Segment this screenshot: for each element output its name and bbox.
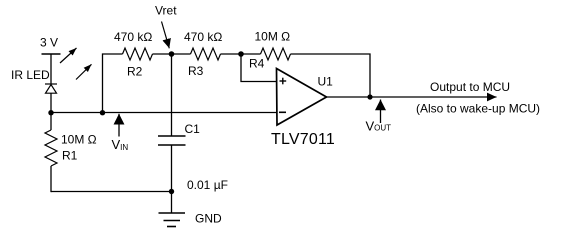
ground symbol xyxy=(159,213,186,227)
wire bottom rail xyxy=(51,191,172,193)
minus input sign xyxy=(279,111,286,113)
wire GND stem xyxy=(171,192,173,214)
wire R1 top lead xyxy=(50,113,52,130)
IR LED D1 xyxy=(45,84,57,93)
svg-text:R2: R2 xyxy=(127,65,143,79)
wire R4 right to output xyxy=(291,54,371,97)
svg-text:VOUT: VOUT xyxy=(366,119,392,134)
svg-text:R3: R3 xyxy=(188,64,204,78)
wire R1 bottom lead xyxy=(50,166,52,192)
Vret pointer arrow xyxy=(162,22,170,49)
svg-text:3 V: 3 V xyxy=(40,36,58,50)
wire output xyxy=(327,96,497,98)
LED light arrow 2 xyxy=(76,64,92,79)
resistor R2 470k zigzag xyxy=(123,48,153,60)
svg-text:GND: GND xyxy=(195,212,222,226)
svg-text:R1: R1 xyxy=(62,149,78,163)
svg-text:470 kΩ: 470 kΩ xyxy=(114,30,152,44)
wire R2 to Vret node xyxy=(153,53,172,55)
resistor R4 10M zigzag xyxy=(261,48,291,60)
svg-text:VIN: VIN xyxy=(112,137,129,152)
svg-text:470 kΩ: 470 kΩ xyxy=(184,30,222,44)
node R3/R4 junction dot xyxy=(238,51,244,57)
svg-text:10M Ω: 10M Ω xyxy=(61,133,97,147)
wire R4 left lead xyxy=(241,53,261,55)
wire LED to node xyxy=(50,93,52,113)
svg-text:R4: R4 xyxy=(249,57,265,71)
svg-text:IR LED: IR LED xyxy=(11,68,50,82)
svg-text:10M Ω: 10M Ω xyxy=(255,30,291,44)
3V supply terminal xyxy=(42,53,61,55)
plus input sign xyxy=(280,78,287,85)
node junction dot (LED/R1) xyxy=(48,110,53,115)
wire R2 left leg xyxy=(103,54,123,113)
svg-text:(Also to wake-up MCU): (Also to wake-up MCU) xyxy=(416,102,540,116)
wire 3V to LED xyxy=(50,54,52,84)
resistor R1 10M zigzag xyxy=(45,130,57,166)
node Vret junction dot xyxy=(169,51,175,57)
LED light arrow 1 xyxy=(60,48,77,63)
VOUT arrow xyxy=(380,100,382,124)
wire + input leg xyxy=(241,54,277,82)
svg-text:C1: C1 xyxy=(185,122,201,136)
svg-text:Vret: Vret xyxy=(155,4,177,18)
node junction dot (R2 leg) xyxy=(100,110,105,115)
op-amp U1 triangle xyxy=(277,69,327,126)
wire Vret down to C1 xyxy=(171,54,173,136)
wire R3 to R4 node xyxy=(221,53,242,55)
svg-text:TLV7011: TLV7011 xyxy=(271,131,335,148)
svg-text:Output to MCU: Output to MCU xyxy=(430,80,510,94)
wire R3 left lead xyxy=(172,53,191,55)
VIN arrow xyxy=(118,114,120,137)
wire main node horizontal (VIN to - input) xyxy=(51,112,277,114)
node bottom junction dot xyxy=(169,189,174,194)
node output junction dot xyxy=(367,94,372,99)
capacitor C1 xyxy=(158,136,186,145)
svg-text:U1: U1 xyxy=(318,74,334,88)
resistor R3 470k zigzag xyxy=(191,48,221,60)
svg-text:0.01 µF: 0.01 µF xyxy=(187,178,228,192)
wire C1 to bottom node xyxy=(171,145,173,192)
